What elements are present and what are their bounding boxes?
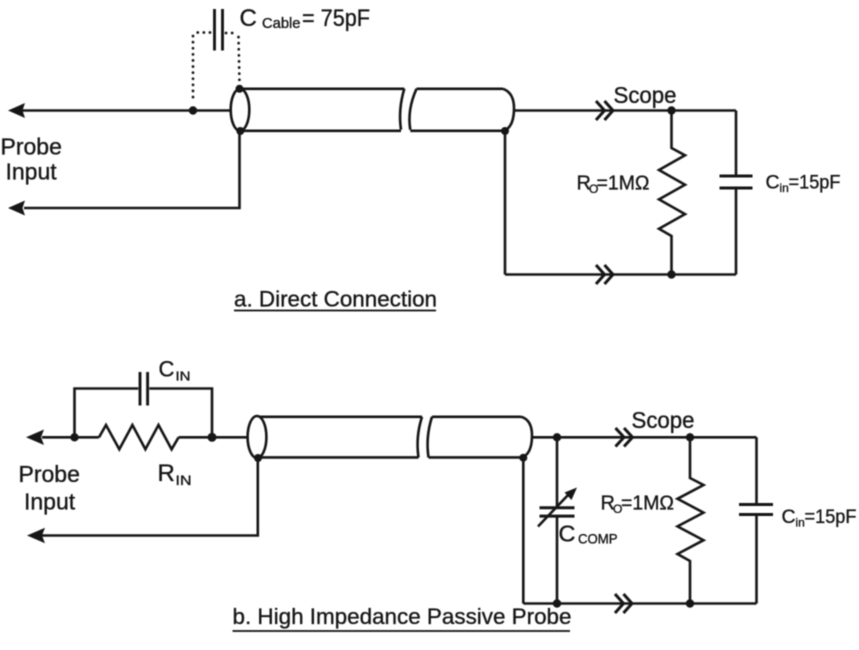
svg-text:Cable: Cable xyxy=(262,15,301,32)
svg-text:COMP: COMP xyxy=(578,531,618,547)
svg-text:R: R xyxy=(158,460,175,487)
svg-text:IN: IN xyxy=(176,369,191,384)
svg-text:Input: Input xyxy=(24,489,76,515)
svg-text:Input: Input xyxy=(6,159,58,185)
svg-text:C: C xyxy=(782,506,796,528)
svg-text:IN: IN xyxy=(176,472,192,488)
svg-text:Scope: Scope xyxy=(614,82,677,108)
svg-text:in: in xyxy=(780,181,789,195)
svg-text:=1MΩ: =1MΩ xyxy=(597,173,650,195)
svg-text:= 75pF: = 75pF xyxy=(302,5,370,32)
svg-text:a. Direct Connection: a. Direct Connection xyxy=(234,287,437,312)
svg-text:C: C xyxy=(559,521,576,547)
svg-text:=1MΩ: =1MΩ xyxy=(621,493,674,515)
svg-text:b. High Impedance Passive Prob: b. High Impedance Passive Probe xyxy=(233,604,572,629)
svg-text:Probe: Probe xyxy=(1,134,62,160)
svg-text:Scope: Scope xyxy=(632,407,695,433)
svg-text:C: C xyxy=(766,172,780,194)
svg-text:C: C xyxy=(159,357,175,382)
svg-text:=15pF: =15pF xyxy=(789,172,841,194)
svg-text:Probe: Probe xyxy=(19,461,80,487)
svg-text:in: in xyxy=(796,516,805,530)
svg-text:C: C xyxy=(240,5,257,32)
svg-text:=15pF: =15pF xyxy=(805,506,857,528)
